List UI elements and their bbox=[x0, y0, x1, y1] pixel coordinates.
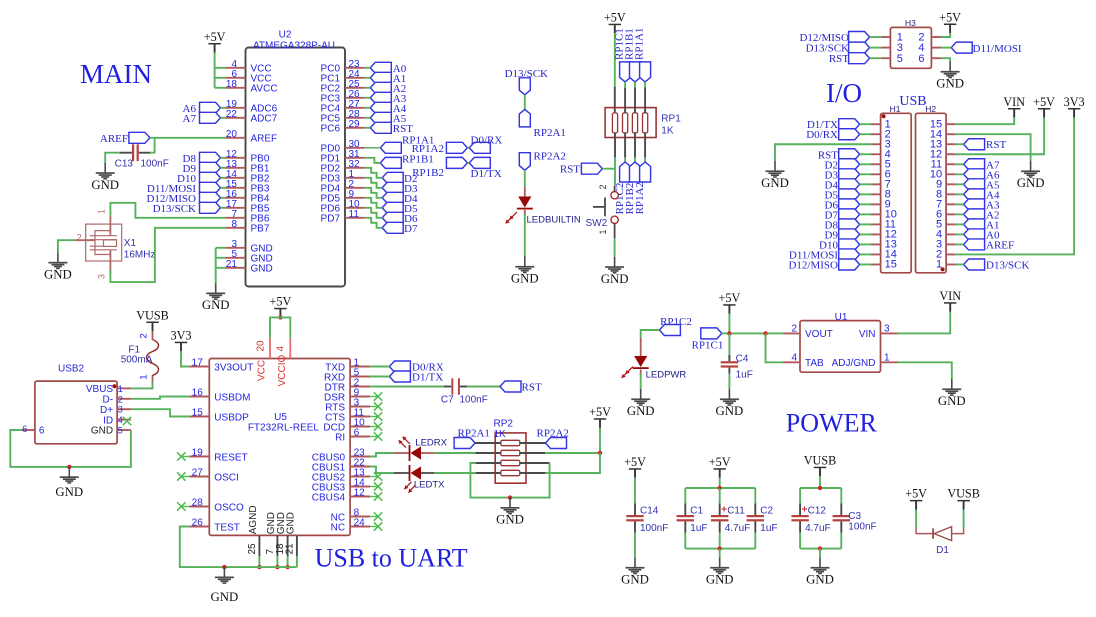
svg-text:MAIN: MAIN bbox=[80, 59, 152, 89]
wire RP1C1 to RP1 bbox=[624, 82, 626, 88]
svg-text:C14: C14 bbox=[640, 506, 659, 517]
U1 pin 4 TAB bbox=[783, 353, 824, 370]
U5 pin 25 AGND bbox=[247, 505, 260, 556]
wire A0 to U2 bbox=[365, 67, 371, 69]
H2 pin 3 bbox=[946, 243, 956, 245]
U5 pin 18 GND bbox=[275, 512, 288, 556]
svg-text:1K: 1K bbox=[661, 126, 674, 137]
no-connect on U5 RESET bbox=[181, 456, 189, 458]
H1 pin 11 bbox=[871, 223, 881, 225]
U5 pin 10 DCD bbox=[323, 418, 370, 434]
svg-text:6: 6 bbox=[22, 424, 27, 434]
wire H2 pin2 to 3V3 bbox=[956, 118, 1074, 255]
net flag D5 bbox=[382, 202, 403, 213]
wire RST to H1 bbox=[860, 153, 871, 155]
svg-text:3: 3 bbox=[96, 274, 106, 279]
wire +5V rail C1 C11 C2 bbox=[719, 478, 721, 488]
svg-text:5: 5 bbox=[118, 426, 123, 436]
H2 pin 10 bbox=[946, 173, 956, 175]
U2 pin 14 PB2 bbox=[225, 169, 270, 185]
net flag A7 bbox=[200, 112, 221, 123]
U2 pin 15 PB3 bbox=[225, 179, 270, 195]
net flag D4 bbox=[382, 192, 403, 203]
net flag D9 bbox=[200, 162, 221, 173]
U5 pin 6 RI bbox=[335, 428, 370, 444]
net flag RP1C1 bbox=[701, 328, 722, 339]
LED LEDBUILTIN bbox=[506, 187, 581, 226]
junction +5V C4 bbox=[727, 331, 731, 335]
no-connect on U5 DCD pin 10 bbox=[370, 426, 378, 428]
svg-text:17: 17 bbox=[192, 358, 204, 369]
U2 pin 7 PB6 bbox=[225, 209, 270, 225]
svg-text:100nF: 100nF bbox=[460, 395, 488, 406]
wire U2 PD3 to D3 bbox=[365, 178, 383, 188]
svg-text:2: 2 bbox=[118, 394, 123, 404]
U2 pin 22 ADC7 bbox=[225, 109, 277, 125]
svg-text:RST: RST bbox=[393, 123, 413, 135]
net flag A2 (H2) bbox=[964, 209, 985, 220]
wire RP1B1 to RP1 bbox=[634, 82, 636, 88]
svg-text:25: 25 bbox=[247, 543, 258, 555]
U5 pin 19 RESET bbox=[189, 448, 247, 464]
svg-text:26: 26 bbox=[192, 518, 204, 529]
U5 pin 12 CBUS4 bbox=[312, 488, 370, 504]
ground at H1 pin3 bbox=[761, 161, 789, 190]
svg-text:GND: GND bbox=[511, 272, 539, 286]
svg-text:+5V: +5V bbox=[939, 10, 961, 24]
H2 pin 15 bbox=[946, 123, 956, 125]
wire AREF to H2 bbox=[956, 243, 964, 245]
wire AREF flag to U2 AREF pin bbox=[150, 137, 225, 139]
net flag D13/SCK (H2) bbox=[964, 259, 985, 270]
net flag D11/MOSI bbox=[200, 182, 221, 193]
wire U2 PD7 to D7 bbox=[365, 218, 383, 228]
no-connect on U5 DSR pin 9 bbox=[370, 396, 378, 398]
svg-text:PC6: PC6 bbox=[321, 124, 341, 135]
wire RP1A1 to RP1 bbox=[644, 82, 646, 88]
U2 pin 11 PD7 bbox=[321, 209, 365, 225]
capacitor C11 4.7uF bbox=[711, 488, 750, 549]
wire C4 to ground bbox=[728, 374, 730, 390]
H1 pin 13 bbox=[871, 243, 881, 245]
svg-text:RP2: RP2 bbox=[494, 419, 514, 430]
U5 pin 4 VCCIO bbox=[276, 338, 291, 386]
wire A3 to U2 bbox=[365, 97, 371, 99]
svg-text:D+: D+ bbox=[100, 405, 113, 416]
svg-text:24: 24 bbox=[354, 518, 366, 529]
net flag A0 bbox=[370, 62, 391, 73]
svg-text:U2: U2 bbox=[279, 30, 292, 41]
net flag D1/TX (H1) bbox=[839, 119, 860, 130]
net flag A7 (H2) bbox=[964, 159, 985, 170]
U5 pin 21 GND bbox=[284, 512, 297, 556]
H1 pin 1 bbox=[871, 123, 881, 125]
wire D6 to H1 bbox=[860, 203, 871, 205]
ground below U2 bbox=[202, 283, 230, 312]
wire U1 ADJ/GND to ground bbox=[898, 362, 952, 379]
net flag A6 (H2) bbox=[964, 169, 985, 180]
junction VOUT TAB bbox=[763, 331, 767, 335]
wire A4 to H2 bbox=[956, 193, 964, 195]
wire U2 PD4 to D4 bbox=[365, 188, 383, 198]
svg-text:GND: GND bbox=[706, 573, 734, 587]
wire +5V to U2 VCC/AVCC pins bbox=[214, 53, 216, 88]
svg-text:VCC: VCC bbox=[257, 360, 268, 381]
svg-text:RP1A1: RP1A1 bbox=[634, 28, 646, 60]
no-connect on U5 CBUS3 pin 14 bbox=[370, 486, 378, 488]
wire U2 PD2 to D2 bbox=[365, 168, 383, 178]
svg-text:22: 22 bbox=[226, 109, 238, 120]
wire U5 AGND to ground bus bbox=[258, 556, 260, 567]
net flag D8 bbox=[200, 152, 221, 163]
svg-text:4: 4 bbox=[118, 415, 123, 425]
wire RXD to D1/TX bbox=[370, 376, 389, 378]
net flag D8 (H1) bbox=[839, 219, 860, 230]
svg-text:+5V: +5V bbox=[709, 455, 731, 469]
svg-text:11: 11 bbox=[349, 209, 360, 220]
wire D4 to H1 bbox=[860, 183, 871, 185]
net flag RP2A1 bbox=[454, 438, 475, 449]
svg-text:27: 27 bbox=[192, 468, 204, 479]
net flag D12/MISO bbox=[200, 192, 221, 203]
net flag D2 (H1) bbox=[839, 159, 860, 170]
svg-text:+5V: +5V bbox=[604, 11, 626, 25]
wire RST to H3 bbox=[870, 57, 881, 59]
svg-text:PD7: PD7 bbox=[321, 214, 341, 225]
net flag D5 (H1) bbox=[839, 189, 860, 200]
net flag D13/SCK bbox=[200, 202, 221, 213]
wire H3 pin4 to D11/MOSI bbox=[941, 47, 951, 49]
svg-text:GND: GND bbox=[938, 394, 966, 408]
svg-text:U1: U1 bbox=[835, 312, 848, 323]
capacitor C7 100nF bbox=[441, 378, 488, 405]
power +5V at H2 pin12 bbox=[1033, 95, 1055, 118]
net flag D9 (H1) bbox=[839, 229, 860, 240]
svg-text:GND: GND bbox=[621, 573, 649, 587]
wire D13/SCK to U2 bbox=[221, 207, 226, 209]
H1 pin 10 bbox=[871, 213, 881, 215]
capacitor C14 100nF bbox=[626, 478, 668, 558]
svg-text:GND: GND bbox=[55, 485, 83, 499]
capacitor C1 1uF bbox=[677, 488, 708, 549]
H1 pin 8 bbox=[871, 193, 881, 195]
power VUSB above F1 bbox=[136, 308, 169, 331]
wire A4 to U2 bbox=[365, 107, 371, 109]
svg-text:6: 6 bbox=[354, 428, 360, 439]
wire A3 to H2 bbox=[956, 203, 964, 205]
U2 pin 8 PB7 bbox=[225, 219, 270, 235]
svg-text:20: 20 bbox=[226, 129, 238, 140]
wire RP1 to RP1B2 bbox=[634, 133, 636, 158]
svg-text:16MHz: 16MHz bbox=[124, 250, 156, 261]
svg-text:RP2A2: RP2A2 bbox=[537, 428, 569, 440]
wire A1 to H2 bbox=[956, 223, 964, 225]
H3 pin 4 bbox=[931, 47, 941, 49]
net flag RST (H3) bbox=[849, 53, 870, 64]
ground below LEDPWR bbox=[627, 389, 655, 418]
ground at H3 bbox=[936, 62, 964, 91]
wire +5V to D1 bbox=[915, 510, 917, 528]
U5 pin 24 NC bbox=[331, 518, 370, 534]
U5 pin 28 OSCO bbox=[189, 498, 244, 514]
svg-text:LEDBUILTIN: LEDBUILTIN bbox=[527, 215, 581, 226]
wire RP2A2 to LEDBUILTIN bbox=[524, 170, 526, 187]
header H3 body bbox=[890, 27, 931, 68]
wire LEDPWR to ground bbox=[640, 374, 642, 390]
svg-text:CBUS4: CBUS4 bbox=[312, 492, 346, 503]
svg-text:AVCC: AVCC bbox=[251, 84, 278, 95]
ground below C12 bbox=[806, 558, 834, 587]
wire U2 PD5 to D5 bbox=[365, 198, 383, 208]
svg-text:C3: C3 bbox=[848, 511, 861, 522]
svg-text:LEDRX: LEDRX bbox=[415, 438, 447, 449]
H1 pin 4 bbox=[871, 153, 881, 155]
USB2 pin 6 shield bbox=[21, 424, 45, 437]
ground at H2 pin14 bbox=[1017, 161, 1045, 190]
header H2 body bbox=[916, 113, 947, 272]
wire RP2 to RP2A2 bbox=[520, 442, 546, 444]
wire A5 to H2 bbox=[956, 183, 964, 185]
svg-text:C7: C7 bbox=[441, 395, 454, 406]
USB2 pin1 marker dot bbox=[112, 384, 116, 388]
svg-text:8: 8 bbox=[231, 219, 237, 230]
no-connect on U5 NC pin 8 bbox=[370, 516, 378, 518]
svg-text:500mA: 500mA bbox=[121, 355, 153, 366]
U5 pin 5 RXD bbox=[324, 368, 370, 384]
wire D13/SCK to RP2A1 bbox=[524, 95, 526, 110]
wire RP1 to RP1C2 bbox=[624, 133, 626, 158]
svg-text:USBDM: USBDM bbox=[214, 392, 250, 403]
svg-text:D7: D7 bbox=[404, 223, 418, 235]
svg-text:USB: USB bbox=[899, 94, 926, 109]
H2 pin 2 bbox=[946, 253, 956, 255]
wire RP1 pulldown column to RST/SW2 bbox=[614, 133, 616, 158]
U2 pin 2 PD4 bbox=[321, 179, 365, 195]
svg-text:RST: RST bbox=[986, 139, 1006, 151]
junction +5V U5 bbox=[278, 315, 282, 319]
wire U2 GND pins to ground bbox=[216, 247, 226, 249]
net flag D0/RX (U5 TXD) bbox=[389, 361, 410, 372]
net flag D0/RX (H1) bbox=[839, 129, 860, 140]
net flag D1/TX (at RP1B2) bbox=[469, 157, 490, 168]
svg-text:VIN: VIN bbox=[1003, 95, 1025, 109]
H3 pin 6 bbox=[931, 57, 941, 59]
svg-text:20: 20 bbox=[256, 340, 267, 352]
U5 pin 2 DTR bbox=[325, 378, 371, 394]
net flag A5 (H2) bbox=[964, 179, 985, 190]
wire U5 TEST to ground bus bbox=[180, 527, 297, 568]
wire RP1A2 to D0/RX bbox=[467, 147, 469, 149]
svg-text:2: 2 bbox=[791, 324, 797, 335]
U2 pin 29 PC6 bbox=[321, 119, 365, 135]
svg-text:3: 3 bbox=[118, 405, 123, 415]
wire ground rail C12 C3 bbox=[800, 548, 841, 550]
net flag A1 bbox=[370, 72, 391, 83]
net flag D10 (H1) bbox=[839, 239, 860, 250]
junction on USB2 ground loop bbox=[67, 465, 71, 469]
svg-text:D1/TX: D1/TX bbox=[412, 371, 443, 383]
power +5V at H3 bbox=[939, 10, 961, 33]
H1 pin 9 bbox=[871, 203, 881, 205]
svg-text:LEDTX: LEDTX bbox=[414, 480, 445, 491]
USB2 pin 1 VBUS bbox=[86, 384, 131, 395]
wire U5 GND to ground bus bbox=[287, 556, 289, 567]
svg-text:D12/MISO: D12/MISO bbox=[788, 259, 838, 271]
H3 pin 1 bbox=[881, 36, 891, 38]
RP1 resistor element 1 bbox=[612, 113, 617, 133]
svg-text:ADJ/GND: ADJ/GND bbox=[832, 358, 876, 369]
LED LEDPWR bbox=[622, 338, 687, 381]
power +5V above U2 bbox=[204, 30, 226, 53]
wire A7 to ADC7 bbox=[221, 117, 226, 119]
svg-text:28: 28 bbox=[192, 498, 204, 509]
svg-text:VUSB: VUSB bbox=[804, 454, 837, 468]
wire +5V to U5 VCC and VCCIO bbox=[270, 317, 290, 338]
wire DTR to C7 bbox=[370, 386, 444, 388]
net flag RST (at SW2) bbox=[581, 163, 602, 174]
svg-text:X1: X1 bbox=[124, 238, 137, 249]
svg-text:1uF: 1uF bbox=[736, 370, 753, 381]
wire +5V to RP1 bbox=[614, 33, 616, 86]
wire D12/MISO to U2 bbox=[221, 197, 226, 199]
svg-text:1: 1 bbox=[118, 384, 123, 394]
power +5V at RP2 bbox=[589, 405, 611, 428]
wire D1 to VUSB bbox=[963, 510, 965, 528]
H2 pin 5 bbox=[946, 223, 956, 225]
svg-text:16: 16 bbox=[192, 388, 204, 399]
U2 pin 9 PD5 bbox=[321, 189, 365, 205]
svg-text:D0/RX: D0/RX bbox=[471, 135, 503, 147]
wire H2 pin12 to +5V bbox=[956, 118, 1044, 155]
net flag D12/MISO (H3) bbox=[849, 32, 870, 43]
wire D11/MOSI to U2 bbox=[221, 187, 226, 189]
wire D1/TX to H1 bbox=[860, 123, 871, 125]
wire RST to H2 bbox=[956, 143, 964, 145]
net flag A0 (H2) bbox=[964, 229, 985, 240]
svg-text:ATMEGA328P-AU: ATMEGA328P-AU bbox=[253, 40, 335, 51]
U2 pin 27 PC4 bbox=[321, 99, 365, 115]
net flag RP1A2 (bottom of RP1) bbox=[640, 162, 651, 182]
svg-text:D0/RX: D0/RX bbox=[806, 129, 838, 141]
svg-text:I/O: I/O bbox=[826, 78, 862, 108]
wire A6 to ADC6 bbox=[221, 107, 226, 109]
U5 pin 3 RTS bbox=[325, 398, 370, 414]
H3 pin 5 bbox=[881, 57, 891, 59]
wire U2 PD6 to D6 bbox=[365, 208, 383, 218]
svg-text:GND: GND bbox=[936, 77, 964, 91]
svg-text:D1/TX: D1/TX bbox=[471, 168, 502, 180]
svg-text:GND: GND bbox=[627, 404, 655, 418]
net flag RP1A1 bbox=[380, 142, 401, 153]
U5 pin 17 3V3OUT bbox=[189, 358, 253, 374]
svg-text:RP2A1: RP2A1 bbox=[458, 428, 490, 440]
switch SW2 bbox=[586, 184, 619, 238]
power VIN at H2 pin15 bbox=[1003, 95, 1025, 118]
U2 pin 12 PB0 bbox=[225, 149, 270, 165]
U2 pin 25 PC2 bbox=[321, 79, 365, 95]
net flag RP1C2 (bottom of RP1) bbox=[620, 162, 631, 182]
wire U5 GND to ground bus bbox=[276, 556, 278, 567]
ground at X1 bbox=[44, 252, 72, 281]
U2 pin 20 AREF bbox=[225, 129, 277, 145]
IC U1 regulator body bbox=[800, 321, 881, 373]
junction +5V RP2 bbox=[598, 451, 602, 455]
net flag RST bbox=[370, 122, 391, 133]
svg-text:H2: H2 bbox=[925, 104, 936, 114]
net flag D11/MOSI (H1) bbox=[839, 249, 860, 260]
wire D11/MOSI to H1 bbox=[860, 253, 871, 255]
svg-text:3: 3 bbox=[884, 324, 890, 335]
svg-text:A7: A7 bbox=[183, 113, 197, 125]
svg-text:3V3OUT: 3V3OUT bbox=[214, 362, 253, 373]
power +5V at C14 bbox=[624, 455, 646, 478]
U5 pin 9 DSR bbox=[324, 388, 370, 404]
wire U1 VIN to VIN bbox=[898, 312, 951, 334]
wire LEDRX to RP2 bbox=[434, 452, 475, 454]
U2 pin 23 PC0 bbox=[321, 59, 365, 75]
svg-text:+5V: +5V bbox=[204, 30, 226, 44]
no-connect on U5 NC pin 24 bbox=[370, 526, 378, 528]
H2 pin 12 bbox=[946, 153, 956, 155]
U2 pin 4 VCC bbox=[225, 59, 271, 75]
svg-text:AREF: AREF bbox=[251, 134, 278, 145]
svg-text:+5V: +5V bbox=[905, 487, 927, 501]
svg-text:GND: GND bbox=[211, 590, 239, 604]
svg-text:4.7uF: 4.7uF bbox=[725, 523, 751, 534]
U2 pin 24 PC1 bbox=[321, 69, 365, 85]
svg-text:12: 12 bbox=[354, 488, 366, 499]
svg-text:RP2A2: RP2A2 bbox=[534, 151, 566, 163]
svg-text:RP2A1: RP2A1 bbox=[534, 127, 566, 139]
svg-text:VUSB: VUSB bbox=[136, 308, 169, 322]
diode D1 bbox=[916, 527, 964, 556]
net flag A3 bbox=[370, 92, 391, 103]
wire D5 to H1 bbox=[860, 193, 871, 195]
net flag A3 (H2) bbox=[964, 199, 985, 210]
svg-text:AREF: AREF bbox=[100, 133, 128, 145]
no-connect on U5 CBUS4 pin 12 bbox=[370, 496, 378, 498]
U2 pin 5 GND bbox=[225, 249, 273, 265]
power +5V at D1 bbox=[905, 487, 927, 510]
wire D13/SCK to H2 bbox=[956, 263, 964, 265]
wire H2 pin15 to VIN bbox=[956, 118, 1015, 125]
svg-text:19: 19 bbox=[192, 448, 204, 459]
svg-text:TEST: TEST bbox=[214, 522, 240, 533]
svg-text:+5V: +5V bbox=[719, 291, 741, 305]
net flag A4 bbox=[370, 102, 391, 113]
H2 pin 13 bbox=[946, 143, 956, 145]
svg-text:D13/SCK: D13/SCK bbox=[153, 203, 196, 215]
svg-text:C1: C1 bbox=[690, 506, 703, 517]
net flag D12/MISO (H1) bbox=[839, 259, 860, 270]
svg-text:29: 29 bbox=[349, 119, 361, 130]
H1 pin 15 bbox=[871, 263, 881, 265]
wire RP1B2 to D1/TX bbox=[467, 162, 469, 164]
H3 pin 3 bbox=[881, 47, 891, 49]
svg-text:C2: C2 bbox=[760, 506, 773, 517]
H1 pin 7 bbox=[871, 183, 881, 185]
H2 pin 6 bbox=[946, 213, 956, 215]
wire RP2 row3 ground loop bbox=[476, 462, 501, 464]
wire A2 to U2 bbox=[365, 87, 371, 89]
U2 pin 28 PC5 bbox=[321, 109, 365, 125]
ground below LEDBUILTIN bbox=[511, 257, 539, 286]
wire A6 to H2 bbox=[956, 173, 964, 175]
net flag A2 bbox=[370, 82, 391, 93]
ground at C13 bbox=[91, 163, 119, 192]
wire RP2A1 to RP2 bbox=[475, 442, 501, 444]
net flag RP1B2 (bottom of RP1) bbox=[630, 162, 641, 182]
